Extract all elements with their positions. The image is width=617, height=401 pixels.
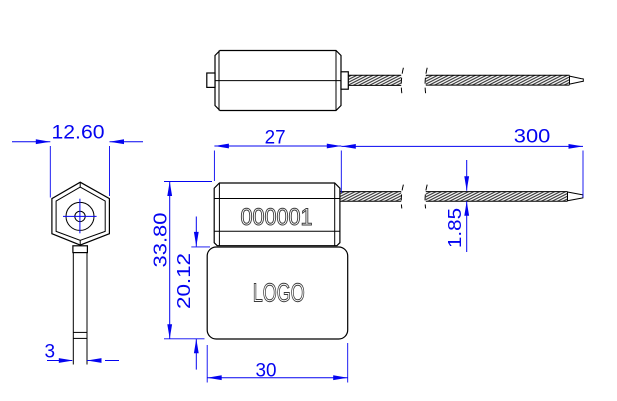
dim 30 arrow left [207,375,222,380]
dim 27 arrow left [214,144,229,149]
cable segment 1 (top view) [348,75,401,85]
svg-text:3: 3 [45,342,56,363]
svg-text:1.85: 1.85 [444,208,465,248]
cable tip (top view) [570,76,584,84]
svg-text:000001: 000001 [241,204,313,231]
svg-text:12.60: 12.60 [52,122,105,143]
hex vertex tick top [79,182,81,187]
dim 3 line right [87,360,121,362]
svg-text:20.12: 20.12 [173,253,194,309]
dim 3 arrow left [59,358,74,363]
svg-text:33.80: 33.80 [149,213,170,268]
dim 12.60 line right [110,141,144,143]
dim 33.80/20.12 shared extension bottom [164,338,205,340]
cable tip (front view) [568,192,583,201]
cap chamfer line right (front view) [334,183,336,246]
cable right edge (left view) [86,253,88,365]
hex vertex tick bottom [79,240,81,245]
cable ferrule (left view) [73,246,88,253]
dim 1.85 stem top [466,160,468,191]
dim 300 arrow right [569,144,584,149]
dim 3 arrow right [87,358,102,363]
hex head inner (left view) [56,187,105,240]
hex head outer (left view) [52,182,110,245]
seal cap (front view) [214,183,340,246]
dim 30 arrow right [333,375,348,380]
dim 20.12 stem bottom [195,339,197,370]
dim 12.60 extension left [49,146,51,198]
dim 300 line [341,145,583,147]
body chamfer line right (top view) [335,51,337,111]
dim 1.85 arrow bottom [464,201,469,216]
break mark A (top view) [401,68,403,93]
svg-text:LOGO: LOGO [253,277,305,307]
cap band line lower (front view) [214,230,340,232]
svg-text:27: 27 [265,128,286,149]
cap chamfer line left (front view) [218,183,220,246]
dim 12.60 arrow right [110,139,125,144]
seal lower body (front view) [207,247,348,339]
dim 27 line [214,145,341,147]
cable left edge (left view) [72,253,74,365]
dim 30 line [207,377,348,379]
dim 33.80 arrow top [167,182,172,197]
dim 20.12 stem top [195,217,197,247]
dim 1.85 stem bottom [466,201,468,252]
dim 12.60 arrow left [36,139,51,144]
dim 33.80 extension top [164,181,212,183]
svg-text:300: 300 [514,126,551,147]
dim 20.12 arrow bottom [194,339,199,354]
center mark horizontal (left view) [63,215,97,217]
dim 27 arrow right [327,144,342,149]
dim 30 extension right [347,343,349,383]
cable hole outer circle (left view) [66,202,94,230]
center mark vertical (left view) [79,199,81,234]
cable hole inner circle (left view) [75,211,85,221]
dim 27/300 shared extension [340,151,342,193]
dim 12.60 extension right [109,146,111,196]
cable segment 2 (top view) [426,75,570,85]
dim 1.85 arrow top [464,176,469,191]
body chamfer line left (top view) [218,51,220,111]
dim 33.80 line [169,182,171,339]
cable segment 1 (front view) [340,192,401,202]
cable crimp tick lower (left view) [73,337,87,339]
dim 3 line left [47,360,72,362]
dim 27 extension left [213,151,215,182]
anchor tab (top view, left) [207,73,215,87]
svg-text:30: 30 [256,361,277,382]
cable ferrule (top view, right) [341,72,348,89]
cable crimp tick upper (left view) [73,331,87,333]
dim 20.12 extension top [191,246,210,248]
cap band line upper (front view) [214,198,340,200]
dim 33.80 arrow bottom [167,324,172,339]
cable segment 2 (front view) [426,192,568,202]
dim 20.12 arrow top [194,232,199,247]
break mark A (front view) [401,185,403,209]
break mark B (top view) [425,68,427,93]
dim 12.60 line left [12,141,50,143]
seal body (top view) [215,51,341,111]
body parting center line (top view) [215,80,341,82]
break mark B (front view) [425,185,427,209]
dim 300 arrow left [341,144,356,149]
dim 30 extension left [206,345,208,383]
dim 300 extension right [582,151,584,198]
